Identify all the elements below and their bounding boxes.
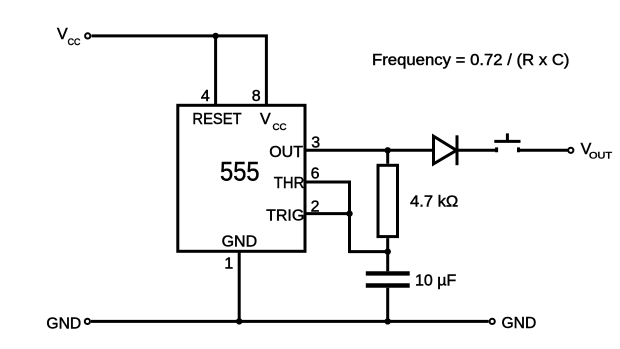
svg-text:10 µF: 10 µF: [415, 272, 456, 289]
svg-text:THR: THR: [274, 175, 305, 192]
svg-text:GND: GND: [502, 315, 537, 332]
svg-text:GND: GND: [46, 315, 81, 332]
svg-text:OUT: OUT: [589, 150, 612, 161]
svg-text:1: 1: [224, 255, 233, 272]
svg-text:RESET: RESET: [192, 111, 242, 128]
svg-text:Frequency = 0.72 / (R x C): Frequency = 0.72 / (R x C): [372, 52, 570, 69]
svg-text:V: V: [260, 111, 271, 128]
svg-text:6: 6: [311, 166, 320, 183]
svg-text:TRIG: TRIG: [266, 207, 304, 224]
svg-text:4.7 kΩ: 4.7 kΩ: [410, 193, 458, 210]
svg-text:GND: GND: [222, 233, 258, 250]
svg-text:3: 3: [311, 135, 320, 152]
svg-text:V: V: [57, 26, 68, 43]
svg-text:OUT: OUT: [269, 144, 303, 161]
svg-text:2: 2: [311, 198, 320, 215]
svg-text:8: 8: [252, 88, 261, 105]
svg-text:555: 555: [220, 157, 260, 187]
svg-text:CC: CC: [68, 37, 81, 48]
svg-text:CC: CC: [273, 122, 287, 133]
svg-text:4: 4: [201, 88, 210, 105]
